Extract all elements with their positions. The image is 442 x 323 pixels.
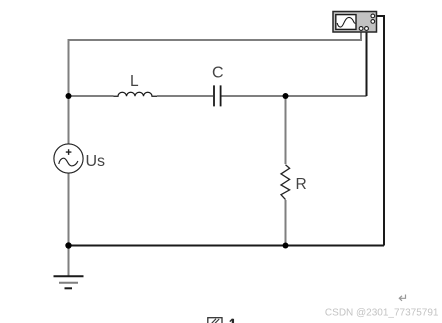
svg-text:C: C	[212, 65, 224, 82]
svg-text:L: L	[130, 73, 139, 90]
svg-text:R: R	[296, 176, 307, 193]
svg-text:CSDN @2301_77375791: CSDN @2301_77375791	[325, 307, 439, 318]
svg-text:Us: Us	[86, 153, 106, 170]
